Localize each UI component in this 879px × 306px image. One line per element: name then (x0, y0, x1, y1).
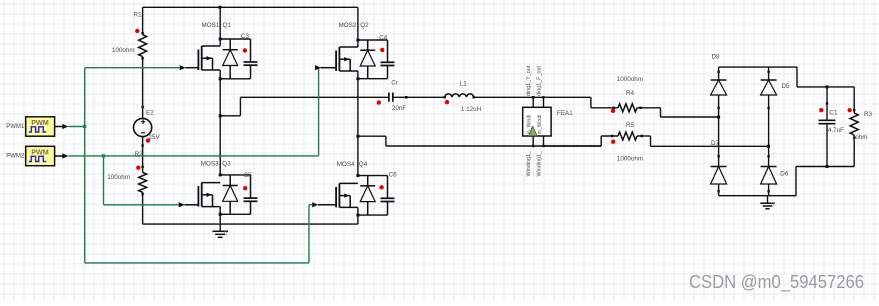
svg-text:in_Windi: in_Windi (526, 115, 532, 135)
svg-text:D5: D5 (782, 83, 791, 90)
svg-text:1.12uH: 1.12uH (461, 106, 482, 113)
svg-text:100ohm: 100ohm (107, 174, 130, 181)
svg-text:D7: D7 (711, 140, 720, 147)
svg-text:0: 0 (224, 231, 227, 237)
svg-text:R5: R5 (626, 122, 635, 129)
svg-text:D8: D8 (712, 54, 721, 61)
svg-text:0: 0 (771, 202, 774, 208)
svg-text:25V: 25V (149, 134, 161, 141)
svg-text:ding1_F_out: ding1_F_out (537, 66, 543, 96)
svg-text:C6: C6 (389, 172, 398, 179)
svg-text:R2: R2 (135, 151, 144, 158)
svg-text:R4: R4 (626, 90, 635, 97)
svg-text:R1: R1 (134, 11, 143, 18)
svg-text:in_Windi: in_Windi (537, 115, 543, 135)
svg-text:Q2: Q2 (360, 22, 369, 29)
svg-text:FEA1: FEA1 (557, 110, 573, 117)
svg-text:MOS1: MOS1 (202, 22, 220, 29)
svg-text:MOS3: MOS3 (201, 161, 219, 168)
svg-text:MOS2: MOS2 (339, 22, 357, 29)
svg-text:PWM: PWM (31, 118, 49, 127)
svg-text:C5: C5 (244, 172, 253, 179)
svg-text:Q4: Q4 (359, 161, 368, 168)
svg-text:CSDN @m0_59457266: CSDN @m0_59457266 (689, 272, 864, 293)
svg-text:C1: C1 (829, 110, 838, 117)
svg-text:C4: C4 (379, 34, 388, 41)
svg-text:PWM1: PWM1 (6, 124, 25, 130)
svg-text:C3: C3 (241, 33, 250, 40)
svg-text:L1: L1 (460, 81, 468, 88)
svg-text:D6: D6 (780, 171, 789, 178)
svg-text:Cr: Cr (391, 79, 398, 86)
svg-text:PWM: PWM (31, 147, 49, 156)
svg-text:Winding1_: Winding1_ (526, 150, 532, 176)
svg-text:1ohm: 1ohm (852, 134, 868, 141)
svg-text:Q3: Q3 (222, 161, 231, 168)
svg-text:20nF: 20nF (392, 105, 407, 112)
svg-text:MOS4: MOS4 (337, 161, 355, 168)
svg-text:ding1_Y_out: ding1_Y_out (526, 65, 532, 96)
svg-text:E2: E2 (146, 109, 154, 116)
svg-text:R3: R3 (864, 111, 873, 118)
svg-text:PWM2: PWM2 (6, 154, 25, 160)
svg-text:Winding1_: Winding1_ (537, 150, 543, 176)
svg-text:Q1: Q1 (223, 22, 232, 29)
svg-text:1000ohm: 1000ohm (617, 76, 643, 83)
svg-text:100ohm: 100ohm (112, 47, 135, 54)
svg-text:4.7uF: 4.7uF (828, 127, 844, 134)
svg-text:1000ohm: 1000ohm (617, 155, 643, 162)
